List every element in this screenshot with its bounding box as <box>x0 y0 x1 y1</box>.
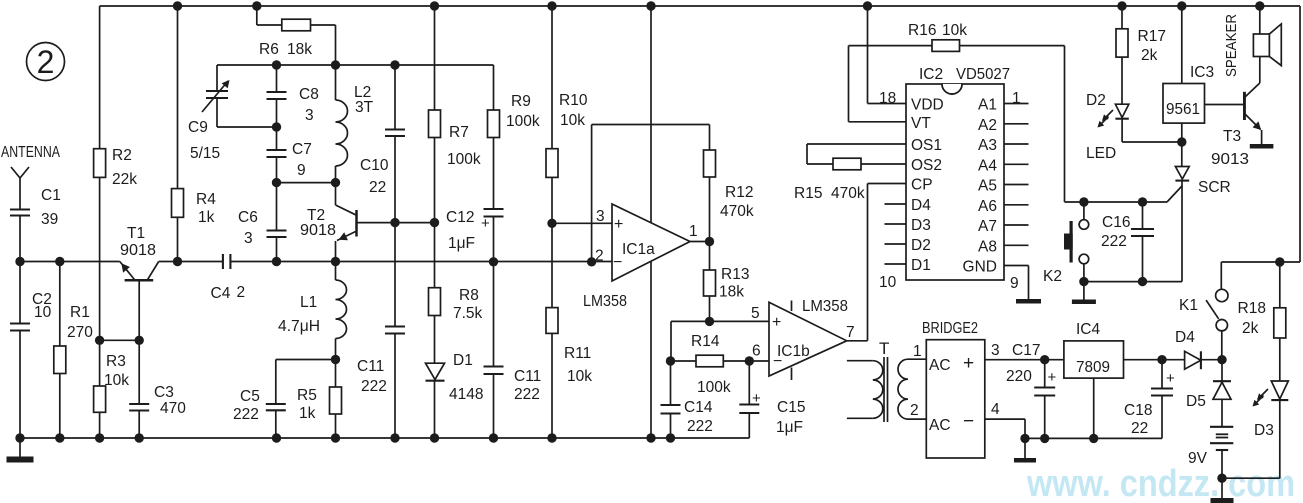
svg-text:C11: C11 <box>514 368 541 385</box>
svg-text:+: + <box>752 390 761 407</box>
svg-text:A7: A7 <box>978 218 997 235</box>
svg-text:10k: 10k <box>560 112 585 129</box>
svg-text:18: 18 <box>879 90 896 107</box>
svg-text:D4: D4 <box>911 197 931 214</box>
svg-text:4148: 4148 <box>449 386 483 403</box>
svg-text:470: 470 <box>160 400 186 417</box>
svg-text:R16: R16 <box>908 22 936 39</box>
svg-text:D1: D1 <box>453 352 473 369</box>
svg-text:1μF: 1μF <box>776 419 803 436</box>
svg-text:222: 222 <box>687 418 713 435</box>
svg-text:R2: R2 <box>112 147 132 164</box>
svg-text:R14: R14 <box>691 333 720 350</box>
svg-text:R5: R5 <box>297 387 317 404</box>
svg-text:7.5k: 7.5k <box>453 305 483 322</box>
svg-text:2: 2 <box>910 402 919 419</box>
svg-text:7: 7 <box>846 324 855 341</box>
svg-text:39: 39 <box>41 211 58 228</box>
svg-text:9: 9 <box>1010 275 1019 292</box>
svg-text:9V: 9V <box>1188 450 1208 467</box>
svg-text:470k: 470k <box>831 185 865 202</box>
svg-text:OS1: OS1 <box>911 137 942 154</box>
svg-text:A4: A4 <box>978 157 997 174</box>
svg-text:2k: 2k <box>1242 320 1259 337</box>
svg-text:IC2: IC2 <box>919 66 943 83</box>
svg-text:C6: C6 <box>238 209 258 226</box>
svg-text:222: 222 <box>233 406 259 423</box>
svg-text:10k: 10k <box>567 368 592 385</box>
svg-text:LM358: LM358 <box>802 298 848 315</box>
svg-text:9018: 9018 <box>300 222 336 239</box>
svg-text:5/15: 5/15 <box>190 145 220 162</box>
svg-text:D3: D3 <box>911 217 931 234</box>
svg-text:R9: R9 <box>511 93 531 110</box>
svg-text:ANTENNA: ANTENNA <box>1 144 61 161</box>
svg-text:D2: D2 <box>1086 92 1106 109</box>
svg-text:+: + <box>963 353 974 374</box>
svg-text:2: 2 <box>37 44 55 80</box>
svg-text:−: − <box>963 411 974 432</box>
svg-text:100k: 100k <box>447 151 481 168</box>
svg-text:C16: C16 <box>1102 214 1130 231</box>
svg-text:L1: L1 <box>300 294 317 311</box>
svg-text:A6: A6 <box>978 198 997 215</box>
svg-text:C4: C4 <box>211 285 231 302</box>
svg-text:10k: 10k <box>942 22 967 39</box>
svg-text:4: 4 <box>991 401 1000 418</box>
svg-text:3: 3 <box>305 107 314 124</box>
svg-text:222: 222 <box>514 386 540 403</box>
svg-text:AC: AC <box>929 417 951 434</box>
svg-text:−: − <box>613 254 622 271</box>
svg-text:C8: C8 <box>299 86 319 103</box>
svg-text:R11: R11 <box>564 345 591 362</box>
svg-text:C9: C9 <box>188 119 208 136</box>
svg-text:9013: 9013 <box>1211 151 1249 168</box>
svg-text:1μF: 1μF <box>448 235 475 252</box>
svg-text:R17: R17 <box>1138 28 1166 45</box>
svg-text:2: 2 <box>237 284 246 301</box>
svg-text:IC3: IC3 <box>1190 64 1214 81</box>
svg-text:T3: T3 <box>1223 128 1241 145</box>
svg-text:LED: LED <box>1086 145 1116 162</box>
svg-text:C17: C17 <box>1012 342 1040 359</box>
svg-text:R10: R10 <box>559 92 588 109</box>
svg-text:1: 1 <box>913 343 922 360</box>
svg-text:1: 1 <box>689 223 698 240</box>
svg-text:+: + <box>614 216 623 233</box>
svg-text:+: + <box>1048 369 1057 386</box>
svg-text:C12: C12 <box>446 209 474 226</box>
svg-text:3: 3 <box>244 230 253 247</box>
svg-text:10: 10 <box>879 274 897 291</box>
svg-text:IC1b: IC1b <box>777 343 810 360</box>
svg-text:9561: 9561 <box>1166 101 1200 118</box>
svg-text:C7: C7 <box>292 141 312 158</box>
svg-text:T1: T1 <box>127 225 145 242</box>
svg-text:VT: VT <box>911 115 931 132</box>
svg-text:222: 222 <box>1101 233 1127 250</box>
svg-text:C10: C10 <box>360 157 389 174</box>
svg-text:D5: D5 <box>1186 393 1206 410</box>
svg-text:K1: K1 <box>1179 297 1198 314</box>
svg-text:SCR: SCR <box>1198 179 1231 196</box>
svg-text:3: 3 <box>596 208 605 225</box>
svg-text:AC: AC <box>929 357 951 374</box>
svg-text:R7: R7 <box>449 124 469 141</box>
svg-text:A5: A5 <box>978 178 997 195</box>
svg-text:R15: R15 <box>794 185 822 202</box>
svg-text:OS2: OS2 <box>911 157 942 174</box>
svg-text:R1: R1 <box>70 304 90 321</box>
svg-text:470k: 470k <box>720 203 754 220</box>
svg-text:D1: D1 <box>911 257 931 274</box>
svg-text:+: + <box>481 215 490 232</box>
svg-text:4.7μH: 4.7μH <box>278 318 320 335</box>
svg-text:A3: A3 <box>978 137 997 154</box>
svg-text:R3: R3 <box>106 353 126 370</box>
svg-text:C18: C18 <box>1124 402 1152 419</box>
svg-text:C14: C14 <box>684 399 713 416</box>
svg-text:IC1a: IC1a <box>622 241 655 258</box>
svg-text:D3: D3 <box>1254 422 1274 439</box>
svg-text:LM358: LM358 <box>583 293 627 310</box>
svg-text:C3: C3 <box>154 384 174 401</box>
svg-text:270: 270 <box>67 324 93 341</box>
svg-text:R18: R18 <box>1238 300 1266 317</box>
svg-text:D2: D2 <box>911 237 931 254</box>
svg-text:7809: 7809 <box>1076 359 1110 376</box>
svg-text:18k: 18k <box>287 41 312 58</box>
svg-text:1: 1 <box>1012 90 1021 107</box>
svg-text:IC4: IC4 <box>1076 321 1101 338</box>
svg-text:10: 10 <box>34 304 52 321</box>
svg-text:K2: K2 <box>1043 268 1062 285</box>
svg-text:18k: 18k <box>719 284 744 301</box>
svg-text:www. cndzz. com: www. cndzz. com <box>1026 463 1295 503</box>
svg-text:+: + <box>1166 370 1175 387</box>
svg-text:100k: 100k <box>506 113 540 130</box>
svg-text:R6: R6 <box>259 41 279 58</box>
svg-text:9018: 9018 <box>120 242 156 259</box>
svg-text:100k: 100k <box>697 379 731 396</box>
svg-text:222: 222 <box>361 378 387 395</box>
svg-text:VDD: VDD <box>911 97 944 114</box>
svg-text:A1: A1 <box>978 97 997 114</box>
svg-text:A2: A2 <box>978 117 997 134</box>
svg-text:R8: R8 <box>459 287 479 304</box>
svg-text:6: 6 <box>752 343 761 360</box>
svg-text:22k: 22k <box>112 171 137 188</box>
svg-text:C5: C5 <box>240 388 260 405</box>
svg-text:5: 5 <box>751 305 760 322</box>
svg-text:R4: R4 <box>196 191 216 208</box>
svg-text:SPEAKER: SPEAKER <box>1223 14 1240 77</box>
svg-text:10k: 10k <box>104 372 129 389</box>
svg-text:22: 22 <box>1131 420 1148 437</box>
svg-text:22: 22 <box>369 179 386 196</box>
svg-text:3T: 3T <box>355 99 374 116</box>
svg-text:T: T <box>879 339 889 358</box>
svg-text:BRIDGE2: BRIDGE2 <box>922 320 978 337</box>
svg-text:220: 220 <box>1006 368 1032 385</box>
svg-text:C11: C11 <box>357 358 384 375</box>
svg-text:CP: CP <box>911 177 933 194</box>
svg-text:A8: A8 <box>978 238 997 255</box>
svg-text:VD5027: VD5027 <box>956 66 1010 83</box>
svg-text:1k: 1k <box>198 209 215 226</box>
svg-text:R13: R13 <box>721 266 749 283</box>
svg-text:9: 9 <box>297 162 306 179</box>
svg-text:3: 3 <box>991 342 1000 359</box>
svg-text:C1: C1 <box>41 187 61 204</box>
svg-text:C15: C15 <box>777 399 805 416</box>
svg-text:2k: 2k <box>1141 47 1158 64</box>
svg-text:GND: GND <box>963 259 997 276</box>
svg-text:D4: D4 <box>1175 329 1195 346</box>
svg-text:R12: R12 <box>725 184 753 201</box>
svg-text:1k: 1k <box>299 405 316 422</box>
svg-text:+: + <box>772 314 781 331</box>
